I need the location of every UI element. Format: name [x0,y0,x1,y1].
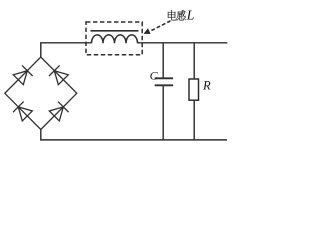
svg-text:C: C [150,69,159,83]
label pointer arrowhead [144,29,150,34]
wire top rail left segment [40,42,91,44]
wire resistor branch lower [193,100,195,140]
inductor L coil [92,35,138,43]
dashed enclosure box around inductor [86,22,142,55]
wire bottom rail [40,139,227,141]
wire bottom stub from bridge - output [40,130,42,140]
capacitor C plates [155,78,173,85]
bridge rectifier diamond wires [5,57,77,129]
inductor core bar [91,30,139,32]
diode D2 (top-right arm, cathode to + node) [49,65,68,84]
wire top stub from bridge + output [40,43,42,57]
diode D1 (left-top arm, cathode to + node) [13,65,32,84]
label 电 of 电感L [168,10,177,20]
label 感 of 电感L [177,10,186,20]
label pointer dashed arrow shaft [150,21,170,31]
wire capacitor branch upper [162,43,164,79]
svg-text:L: L [186,9,195,24]
wire capacitor branch lower [162,85,164,140]
svg-text:R: R [202,79,211,93]
wire top rail right segment [138,42,228,44]
resistor R body [189,79,199,100]
diode D3 (bottom-left arm, anode at - node) [13,102,32,121]
diode D4 (bottom-right arm, anode at - node) [49,102,68,121]
wire resistor branch upper [193,43,195,79]
